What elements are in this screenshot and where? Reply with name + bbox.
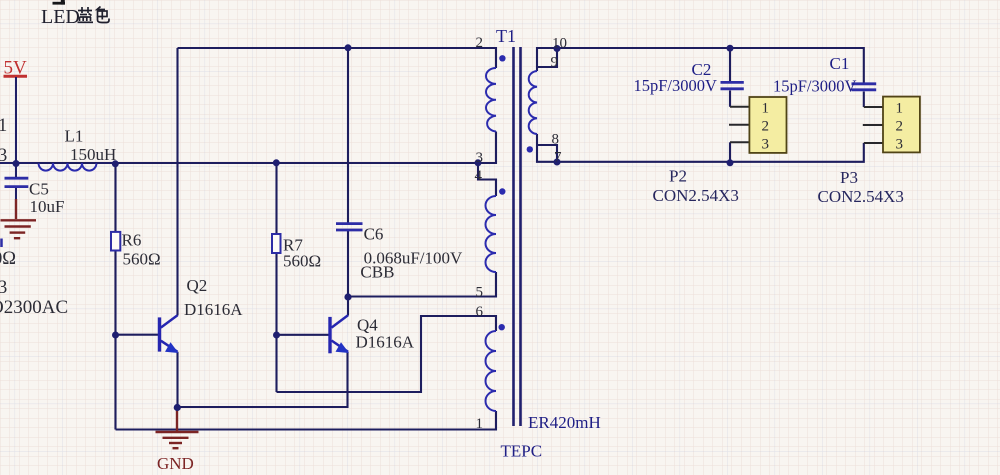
svg-text:1: 1 xyxy=(0,116,7,136)
svg-text:LED: LED xyxy=(41,6,80,28)
svg-text:10: 10 xyxy=(552,36,567,52)
svg-text:L1: L1 xyxy=(65,127,84,146)
svg-text:Q2: Q2 xyxy=(187,276,208,295)
svg-text:8: 8 xyxy=(552,132,560,148)
svg-text:3: 3 xyxy=(896,137,904,153)
svg-text:O2300AC: O2300AC xyxy=(0,297,68,318)
svg-text:ER420mH: ER420mH xyxy=(528,413,601,432)
svg-text:6: 6 xyxy=(476,304,484,320)
svg-text:0Ω: 0Ω xyxy=(0,249,16,269)
svg-text:D1616A: D1616A xyxy=(356,333,415,352)
svg-text:P2: P2 xyxy=(669,167,687,186)
svg-text:150uH: 150uH xyxy=(70,145,116,164)
svg-text:3: 3 xyxy=(476,150,484,166)
svg-text:560Ω: 560Ω xyxy=(283,252,321,271)
svg-text:1: 1 xyxy=(762,101,770,117)
svg-text:C5: C5 xyxy=(29,180,49,199)
svg-text:15pF/3000V: 15pF/3000V xyxy=(773,77,857,96)
svg-text:2: 2 xyxy=(476,35,484,51)
svg-text:15pF/3000V: 15pF/3000V xyxy=(634,76,718,95)
svg-text:3: 3 xyxy=(762,137,770,153)
svg-text:9: 9 xyxy=(551,55,559,71)
svg-text:R6: R6 xyxy=(122,231,142,250)
svg-text:3: 3 xyxy=(0,146,7,166)
svg-text:1: 1 xyxy=(476,416,484,432)
svg-text:1: 1 xyxy=(896,101,904,117)
svg-text:5: 5 xyxy=(476,285,484,301)
svg-text:TEPC: TEPC xyxy=(501,442,543,461)
svg-text:CON2.54X3: CON2.54X3 xyxy=(653,186,739,205)
svg-text:3: 3 xyxy=(0,278,7,298)
svg-text:P3: P3 xyxy=(840,168,858,187)
svg-text:560Ω: 560Ω xyxy=(123,250,161,269)
svg-text:C1: C1 xyxy=(830,54,850,73)
svg-text:CBB: CBB xyxy=(360,263,394,282)
svg-text:2: 2 xyxy=(762,119,770,135)
svg-text:10uF: 10uF xyxy=(30,197,65,216)
svg-text:T1: T1 xyxy=(496,26,516,46)
svg-text:4: 4 xyxy=(475,168,483,184)
svg-text:2: 2 xyxy=(896,119,904,135)
svg-text:CON2.54X3: CON2.54X3 xyxy=(818,187,904,206)
svg-text:7: 7 xyxy=(554,150,562,166)
svg-text:C6: C6 xyxy=(364,225,384,244)
svg-text:D1616A: D1616A xyxy=(184,300,243,319)
svg-text:GND: GND xyxy=(157,454,194,473)
svg-text:5V: 5V xyxy=(4,58,28,79)
